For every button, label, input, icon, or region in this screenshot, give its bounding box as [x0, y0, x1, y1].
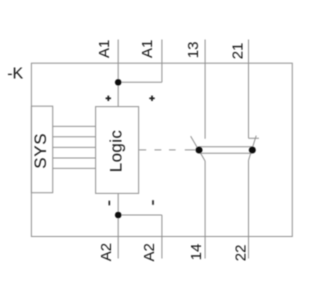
svg-text:14: 14 [188, 244, 205, 261]
svg-text:22: 22 [232, 245, 249, 262]
svg-text:21: 21 [230, 43, 247, 60]
svg-text:SYS: SYS [31, 133, 50, 169]
svg-text:13: 13 [185, 42, 202, 59]
svg-text:A1: A1 [96, 40, 113, 58]
svg-text:A1: A1 [139, 40, 156, 58]
svg-text:A2: A2 [141, 243, 158, 261]
svg-text:-K: -K [7, 66, 23, 83]
svg-text:A2: A2 [98, 243, 115, 261]
svg-text:Logic: Logic [107, 130, 126, 173]
